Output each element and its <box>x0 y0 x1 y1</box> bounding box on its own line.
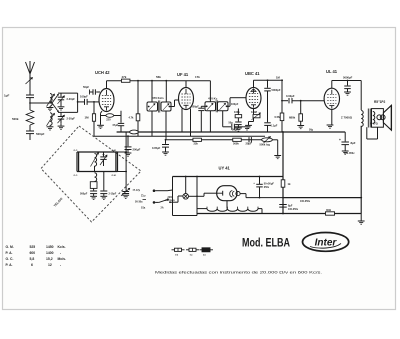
wire switch to lamp <box>170 196 183 202</box>
wire branch right vertical <box>77 93 79 112</box>
svg-text:O.M.: O.M. <box>112 150 117 152</box>
svg-text:±7-17p: ±7-17p <box>133 189 141 192</box>
svg-text:50-30a: 50-30a <box>135 201 143 204</box>
wire lamp branch down <box>196 176 198 214</box>
svg-text:0.05μF: 0.05μF <box>152 146 161 150</box>
voice coil circles <box>377 115 385 120</box>
title Mod. ELBA <box>242 236 290 250</box>
svg-text:Mod. ELBA: Mod. ELBA <box>242 236 290 250</box>
svg-text:47μF: 47μF <box>112 124 118 127</box>
capacitor C17 50+50uF <box>253 181 274 189</box>
svg-text:0.5M: 0.5M <box>275 115 281 119</box>
antenna A1 <box>26 61 35 75</box>
legend one watt resistor <box>186 248 199 256</box>
capacitor C3 100pF <box>80 94 88 105</box>
core box osc <box>90 182 97 189</box>
capacitor C16 8uF bottom <box>279 205 299 215</box>
svg-text:200μF: 200μF <box>133 147 141 151</box>
oscillator block outline <box>74 150 118 177</box>
wire secondary return <box>367 127 378 139</box>
ballast resistor chain <box>197 207 262 214</box>
capacitor C19 500pF osc <box>80 188 97 199</box>
AVC line <box>166 139 262 141</box>
bus B wire <box>94 135 265 137</box>
output transformer T3 primary <box>341 111 363 127</box>
cathode ground UCH42 <box>97 111 104 129</box>
wire rail to IF2 <box>209 81 211 102</box>
svg-text:1450: 1450 <box>46 245 54 249</box>
resistor R9 on B+ drop <box>275 113 284 121</box>
mains terminal P1 <box>153 189 173 192</box>
svg-text:-: - <box>60 263 61 267</box>
svg-text:UCH 42: UCH 42 <box>95 70 110 75</box>
svg-text:Kc/s.: Kc/s. <box>58 245 66 249</box>
svg-text:UBC 41: UBC 41 <box>245 71 260 76</box>
capacitor 1nF antenna <box>4 94 34 103</box>
trimmer C21 7-17pF <box>121 188 141 198</box>
svg-text:+: + <box>339 138 341 142</box>
logo Inter script <box>310 237 341 248</box>
svg-text:0.1μF: 0.1μF <box>271 124 278 128</box>
wire bottom bus <box>197 213 361 215</box>
label 220v <box>165 196 175 202</box>
ground det <box>244 127 251 130</box>
antenna arrow 2 <box>26 78 33 85</box>
svg-text:O. C.: O. C. <box>6 257 14 261</box>
label UCH 42 <box>95 70 110 75</box>
capacitor C9 0.05uF <box>152 139 169 155</box>
wire T2 sec down <box>222 111 224 127</box>
wire UL cathode <box>327 109 334 128</box>
resistor R13 4.7k <box>129 80 140 136</box>
tube U5 UY41 <box>217 186 240 201</box>
wire padder feed <box>125 132 127 191</box>
capacitor C22 500pF IF2 <box>192 105 207 132</box>
wire osc to switch top <box>118 151 128 153</box>
wire HT top line <box>173 176 284 178</box>
capacitor C4 50pF and ground <box>83 85 100 95</box>
label UBC 41 <box>245 71 260 76</box>
svg-text:2-10pF: 2-10pF <box>109 193 117 196</box>
IF transformer T1 470 Kc/s <box>147 96 171 112</box>
wire mains rect left <box>173 177 198 216</box>
svg-text:O. M.: O. M. <box>6 245 14 249</box>
ground L1 <box>47 108 54 111</box>
osc trimmer C18 <box>100 152 107 166</box>
resistor R7 100k <box>234 109 242 122</box>
label 2-30pF OC <box>67 97 76 101</box>
wire T1 sec to UF grid <box>169 100 178 107</box>
wire UL anode <box>332 81 361 89</box>
svg-text:5,8: 5,8 <box>30 257 35 261</box>
resistor R10 680k <box>289 101 304 129</box>
OM tuned branch bottom wire <box>58 111 78 113</box>
svg-text:2A: 2A <box>161 207 164 210</box>
tube U1 UCH42 <box>99 89 114 112</box>
svg-text:UL 41: UL 41 <box>326 69 338 74</box>
trimmer C1 2-30pF <box>58 93 65 110</box>
resistor R2 1M grid leak <box>85 102 96 136</box>
svg-text:100pF: 100pF <box>231 103 239 106</box>
svg-text:100k: 100k <box>234 110 240 114</box>
capacitor C13 0.02uF <box>286 94 295 103</box>
wire UY41 cathode down <box>226 201 228 209</box>
switch S1 band <box>52 94 59 112</box>
svg-text:500pF: 500pF <box>192 105 200 108</box>
bus A wire <box>117 129 346 132</box>
speaker frame <box>372 109 384 128</box>
svg-text:220: 220 <box>106 119 111 122</box>
svg-text:-: - <box>60 251 61 255</box>
svg-text:1k: 1k <box>288 182 291 186</box>
svg-text:5000pF: 5000pF <box>343 76 353 80</box>
tube U2 UF41 <box>179 88 194 110</box>
label 17k <box>195 75 200 79</box>
wire lamp to UY41 <box>189 193 217 196</box>
label osc script <box>135 194 146 204</box>
label frame antenna <box>53 196 64 207</box>
resistor R4 22k <box>193 138 202 145</box>
caption measurements <box>155 271 322 275</box>
svg-text:4.7k: 4.7k <box>129 116 134 119</box>
wire UBC anode <box>254 76 284 88</box>
frame antenna outline <box>41 126 141 222</box>
svg-text:680k: 680k <box>289 115 296 119</box>
logo Inter ellipse <box>303 233 349 252</box>
svg-text:O.C.: O.C. <box>74 175 79 177</box>
svg-text:Z 7000Ω: Z 7000Ω <box>341 116 353 120</box>
capacitor C7 <box>246 137 252 146</box>
osc coil L3 <box>91 153 99 167</box>
wire T2 prim down <box>209 111 211 132</box>
speaker horn <box>383 105 391 130</box>
resistor R5 500k <box>233 138 242 145</box>
svg-text:100-350v: 100-350v <box>300 200 311 203</box>
svg-text:6: 6 <box>31 263 33 267</box>
svg-text:0.5M: 0.5M <box>251 110 257 114</box>
wire lamp to top line <box>185 176 187 194</box>
resistor R12 30ohm <box>326 208 335 215</box>
svg-text:100pF: 100pF <box>80 94 88 98</box>
legend two watt resistor <box>200 248 214 257</box>
svg-text:Ωgr: Ωgr <box>141 194 146 198</box>
secondary coil <box>373 112 375 124</box>
arrow trim L1 <box>47 94 55 107</box>
svg-text:R5"1P2: R5"1P2 <box>374 100 385 104</box>
wire coupling to UL grid <box>292 100 324 102</box>
label 2-30pF OM <box>67 117 76 121</box>
wire T1 sec down <box>165 111 167 140</box>
resistor R14 220 ohm <box>101 114 122 122</box>
svg-text:47k: 47k <box>122 75 127 79</box>
ground L2 <box>47 127 54 130</box>
svg-text:O.M.: O.M. <box>112 175 117 177</box>
label speaker impedance <box>370 123 378 126</box>
wire UF anode <box>185 81 187 88</box>
wire to band switch <box>30 102 52 104</box>
svg-text:22k: 22k <box>194 142 199 146</box>
frequency table <box>6 245 67 267</box>
wire rail to IF1 secondary <box>165 80 167 102</box>
capacitor C15 8uF <box>339 132 356 155</box>
svg-text:17k: 17k <box>195 75 200 79</box>
label UF 41 <box>177 72 189 77</box>
svg-text:2w: 2w <box>203 254 206 256</box>
capacitor C14 5000pF <box>343 76 353 96</box>
svg-text:600: 600 <box>30 251 36 255</box>
label 56k <box>156 75 161 79</box>
wire to grid cap <box>78 101 84 103</box>
svg-text:UF 41: UF 41 <box>177 72 189 77</box>
svg-text:350v: 350v <box>264 186 270 189</box>
svg-text:500pF: 500pF <box>36 132 45 136</box>
svg-text:2-30pF: 2-30pF <box>67 117 76 121</box>
wire pot to ground <box>272 140 281 159</box>
svg-text:2-4.7Ω: 2-4.7Ω <box>370 123 378 126</box>
wire bus end ground <box>358 214 365 225</box>
wire B+ drop <box>281 79 283 131</box>
wire B+ vertical <box>282 131 284 213</box>
trimmer C2 2-30pF <box>58 112 65 129</box>
wire heater feed <box>259 176 261 199</box>
wire T1 left down <box>151 111 153 136</box>
wire to coupling cap <box>282 100 288 102</box>
wire rail to IF1 <box>151 80 153 102</box>
svg-text:UY 41: UY 41 <box>219 166 231 171</box>
svg-text:525: 525 <box>30 245 36 249</box>
capacitor 500pF antenna <box>26 131 45 140</box>
wire T2 sec to UBC grid <box>227 98 246 107</box>
svg-text:5000pF: 5000pF <box>272 88 281 92</box>
svg-text:8μF: 8μF <box>351 141 356 145</box>
svg-text:56k: 56k <box>156 75 161 79</box>
svg-text:1μF: 1μF <box>4 94 10 98</box>
svg-text:470 Kc: 470 Kc <box>208 96 218 100</box>
coil L1 OC <box>50 93 58 107</box>
svg-text:30Ω: 30Ω <box>326 208 331 212</box>
wire transformer bottom down <box>360 126 362 214</box>
capacitor C20 padder <box>100 172 116 200</box>
label speaker RS 1P2 <box>374 100 385 104</box>
capacitor C11 0.1uF <box>264 123 277 132</box>
tube U4 UL41 <box>324 88 339 109</box>
wire transformer left <box>360 81 362 111</box>
svg-text:12: 12 <box>48 263 52 267</box>
legend half watt resistor <box>172 248 185 256</box>
capacitor C10 5000pF <box>264 79 281 122</box>
capacitor C8 200uF <box>125 135 141 156</box>
wire UF cathode <box>182 109 191 137</box>
svg-text:500k log: 500k log <box>260 142 271 146</box>
capacitor C12 50uF <box>232 122 242 132</box>
svg-text:1w: 1w <box>190 254 193 256</box>
wire UY41 output <box>240 194 283 198</box>
resistor R8 0.5M pot <box>245 109 260 129</box>
tube U3 UBC41 <box>246 87 261 108</box>
svg-text:1M: 1M <box>85 116 90 120</box>
volume pot P1 0.5M <box>260 137 273 147</box>
svg-text:500pF: 500pF <box>80 193 88 196</box>
mains terminal P2 <box>153 201 159 204</box>
wire osc to switch bottom <box>118 171 128 173</box>
label UY 41 <box>219 166 231 171</box>
transformer core <box>368 109 370 128</box>
IF transformer T2 470 Kc/s <box>205 96 228 112</box>
svg-text:O.C.: O.C. <box>74 150 79 152</box>
svg-text:15,2: 15,2 <box>46 257 53 261</box>
svg-text:470 Kc/s: 470 Kc/s <box>152 96 164 100</box>
wire antenna down <box>29 75 31 95</box>
label UL 41 <box>326 69 338 74</box>
svg-text:100-350v: 100-350v <box>288 208 299 211</box>
node grid UL41 <box>281 100 283 102</box>
resistor R3 47k <box>121 75 130 82</box>
resistor R1 500k <box>12 103 34 131</box>
svg-text:P. A.: P. A. <box>6 251 13 255</box>
label S1a <box>141 207 164 210</box>
resistor R11 1k <box>281 180 291 187</box>
lamp LP1 <box>183 194 189 200</box>
osc coil L5 below <box>94 166 97 182</box>
resistor R6 on bus A <box>130 130 139 134</box>
svg-text:500k: 500k <box>233 142 239 146</box>
wire B+ line to speaker <box>283 197 362 203</box>
svg-text:P. A.: P. A. <box>6 263 13 267</box>
svg-text:1400: 1400 <box>46 251 54 255</box>
svg-text:2-30pF: 2-30pF <box>67 97 76 101</box>
svg-text:S1a: S1a <box>141 207 146 210</box>
svg-text:500k: 500k <box>12 117 19 121</box>
wire grid cap to tube <box>87 101 99 103</box>
svg-text:100-350v: 100-350v <box>344 152 355 155</box>
coil L2 OM <box>50 113 52 127</box>
switch S2 mains <box>159 199 171 203</box>
svg-text:50μ: 50μ <box>229 122 234 125</box>
capacitor C6 50pF det <box>223 122 244 130</box>
OC tuned branch top wire <box>58 92 78 94</box>
wire anode rail <box>107 81 211 89</box>
node antenna junction <box>29 102 31 104</box>
svg-text:Mc/s.: Mc/s. <box>58 257 67 261</box>
capacitor C21 47uF <box>112 111 124 132</box>
svg-text:20μF: 20μF <box>246 142 252 146</box>
svg-text:Medidas efectuadas con instrum: Medidas efectuadas con instrumento de 20… <box>155 271 322 275</box>
arrow trim L2 <box>47 113 55 126</box>
svg-text:0.02μF: 0.02μF <box>286 94 295 98</box>
svg-text:50pF: 50pF <box>83 85 89 89</box>
svg-text:50μ: 50μ <box>309 129 314 132</box>
